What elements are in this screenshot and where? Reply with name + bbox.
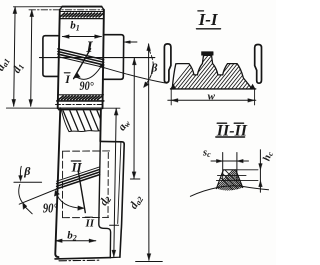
section II-II tooth hatching <box>209 165 267 193</box>
dimension d_a2 <box>148 44 150 260</box>
dimension b1 <box>62 36 101 38</box>
dimension d1 <box>31 10 32 106</box>
gear G2 hidden bore rectangle (dashed) <box>63 150 112 152</box>
svg-text:II: II <box>85 218 95 230</box>
gear G2 tooth trace band <box>57 175 100 189</box>
dimension h_c <box>259 150 261 192</box>
svg-text:β: β <box>23 164 31 178</box>
gear G2 rim broken-out section hatching <box>56 110 105 131</box>
gear G2 bottom tip line <box>55 258 110 259</box>
gear G2 bottom centerline dash-dot <box>59 259 101 262</box>
section I-I tooth profile <box>172 55 252 89</box>
gear G1 top tip edge <box>62 6 101 8</box>
svg-text:sc: sc <box>202 147 211 159</box>
section II-II measuring depth line <box>218 175 247 177</box>
section trace II line <box>78 171 85 213</box>
svg-text:I: I <box>64 72 71 86</box>
section II-II chord line <box>216 179 258 181</box>
dimension a_w <box>133 58 135 178</box>
gear G2 tip line with extensions (d_a1/d1/d2 reference) <box>6 107 58 109</box>
gear G1 bottom tip line <box>57 100 104 102</box>
gear G1 axis pointer arrow <box>130 41 137 43</box>
section trace I line <box>74 49 91 79</box>
svg-text:90°: 90° <box>80 79 94 93</box>
svg-text:aw: aw <box>116 117 133 134</box>
gear G2 axis stub <box>130 178 139 180</box>
gear G1 top rim inner line <box>60 18 104 20</box>
gear G1 pitch line (dash-dot, d1 reference) <box>29 9 104 11</box>
section I-I teeth hatching <box>168 52 279 92</box>
svg-text:w: w <box>208 90 216 102</box>
gear G2 left face <box>55 108 60 257</box>
section II-II rim arc <box>190 186 268 196</box>
svg-text:I: I <box>85 39 93 56</box>
gear G1 left face <box>58 10 60 109</box>
gear G2 hub end ledge line <box>110 224 119 226</box>
gear G2 rim face lower edge and bottom-right curve <box>99 142 111 258</box>
svg-text:b1: b1 <box>70 20 80 33</box>
svg-text:b2: b2 <box>67 230 77 243</box>
section I-I caliper anvil cap on centre tooth <box>202 52 214 56</box>
gear G2 rim section wavy break line <box>62 110 101 131</box>
gear G1 top-left chamfer <box>60 7 62 10</box>
svg-text:hc: hc <box>262 150 276 162</box>
mesh pitch line (dash-dot) <box>56 104 104 106</box>
section I-I right caliper jaw <box>255 45 262 84</box>
gear G1 bottom rim inner line <box>58 94 103 96</box>
section II-II tip chord extension line <box>236 169 258 171</box>
dimension d2 <box>114 108 116 256</box>
gear G1 top root line <box>60 11 104 13</box>
dimension b2 <box>55 240 95 242</box>
svg-text:d1: d1 <box>11 61 27 75</box>
gear G2 hub right face <box>120 144 124 257</box>
svg-text:da1: da1 <box>0 55 12 73</box>
gear G1 tooth trace extension line <box>104 68 167 84</box>
gear G2 hub chamfer line <box>118 142 121 223</box>
gear G2 top root line <box>59 109 101 111</box>
gear G1 bottom rim hatching <box>59 96 103 100</box>
beta arc (gear1, dashed) <box>144 50 153 87</box>
gear G2 rim right face <box>99 108 102 141</box>
gear G2 tooth trace extension line <box>19 189 56 204</box>
dimension w <box>170 90 172 105</box>
gear G1 tooth trace band <box>58 49 104 60</box>
dimension s_c line with jaw verticals <box>211 160 249 162</box>
section I-I left jaw tip mark <box>170 84 175 89</box>
d_a2 bottom extension line <box>136 261 163 263</box>
svg-text:da2: da2 <box>128 193 146 211</box>
gear G1 top rim hatching <box>60 13 104 17</box>
gear G1 right face <box>103 10 104 109</box>
gear G1 tip line (top, d_a1 extension to dimension) <box>13 6 62 8</box>
svg-text:I-I: I-I <box>198 10 219 29</box>
section II-II tooth profile <box>216 170 242 189</box>
gear G2 rim-hub step <box>100 141 124 144</box>
gear G1 right hub <box>103 35 124 80</box>
section I-I left caliper jaw <box>164 44 171 83</box>
svg-text:90°: 90° <box>43 201 58 216</box>
90-degree arc for section II <box>56 192 83 209</box>
section I-I root baseline <box>171 88 256 90</box>
gear G1 top-right chamfer <box>102 7 104 10</box>
svg-text:β: β <box>150 61 158 75</box>
dimension d_a1 <box>14 7 15 106</box>
beta annotation (gear2): arrow, reference line, arc <box>19 166 22 176</box>
gear G1 axis line <box>40 57 155 59</box>
gear G1 left hub <box>43 36 58 77</box>
90-degree arc for section I <box>75 64 103 80</box>
section I-I right jaw tip mark <box>250 84 255 89</box>
